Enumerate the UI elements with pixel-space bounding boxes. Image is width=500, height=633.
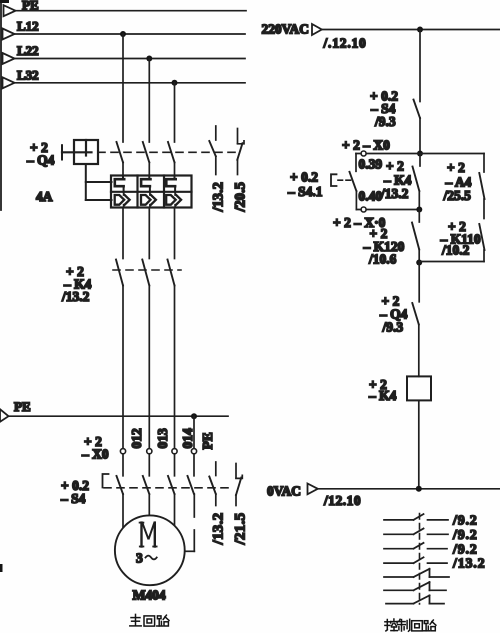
- node 1 junction: [417, 151, 423, 157]
- breaker Q4 trip linkage: [86, 164, 112, 200]
- coil K4: [368, 376, 431, 403]
- wire phase3 overload to K4: [174, 208, 176, 259]
- svg-text:/9.2: /9.2: [452, 528, 478, 543]
- switch S4 pole 2: [143, 454, 150, 514]
- label 回: [412, 621, 423, 631]
- wire 220VAC to S4: [419, 30, 421, 102]
- svg-text:/9.3: /9.3: [382, 320, 404, 335]
- thermal element phase2: [141, 176, 150, 192]
- net L22 rail: [3, 43, 246, 64]
- svg-text:/10.6: /10.6: [368, 252, 397, 267]
- svg-text:L22: L22: [17, 43, 39, 58]
- junction 0VAC: [416, 486, 422, 492]
- svg-text:– X0: – X0: [81, 447, 109, 462]
- net 0VAC rail: [267, 484, 500, 509]
- junction PE drop: [191, 413, 197, 419]
- auxiliary contact S4 /21.5 (NC): [233, 464, 249, 546]
- contact Q4 /9.3: [379, 263, 419, 377]
- switch S4 pole 1: [117, 454, 124, 527]
- net PE bottom rail: [0, 399, 228, 422]
- mirror contact 7 (NC): [386, 595, 444, 603]
- auxiliary contact S4 /13.2: [209, 462, 226, 546]
- junction on L32: [172, 80, 178, 86]
- contact mirror dashed link: [419, 514, 421, 605]
- wire coil to 0VAC: [418, 400, 420, 488]
- switch S4.1 branch: [287, 154, 356, 210]
- magnetic trip phase3: [166, 192, 181, 208]
- net PE top rail: [4, 0, 247, 16]
- label main-circuit (CJK): [130, 614, 436, 631]
- terminal X0:0.39 row: [342, 138, 420, 172]
- contactor K4 main pole 2: [142, 260, 149, 286]
- wire phase1 overload to K4: [122, 208, 124, 259]
- junction 220VAC: [417, 27, 423, 33]
- svg-text:PE: PE: [200, 432, 215, 449]
- wire pole3 to overload: [174, 162, 176, 175]
- svg-text:/10.2: /10.2: [441, 243, 470, 258]
- net 220VAC rail: [262, 22, 500, 51]
- wire phase2 drop: [148, 59, 150, 143]
- svg-text:L12: L12: [17, 19, 39, 34]
- switch S4 dashed link: [104, 487, 234, 489]
- switch S4 labels and actuator: [60, 474, 109, 506]
- contactor K4 main pole 1: [116, 260, 123, 286]
- svg-text:/13.2: /13.2: [211, 513, 227, 546]
- breaker Q4 mechanical dashed link: [98, 151, 236, 153]
- breaker Q4 pole 3: [168, 142, 175, 162]
- svg-text:PE: PE: [14, 399, 31, 414]
- svg-text:– S4: – S4: [60, 491, 86, 506]
- svg-text:0.39: 0.39: [359, 157, 383, 172]
- contactor K4 labels: [61, 264, 92, 304]
- label 路: [424, 620, 436, 631]
- terminal X0:014: [172, 449, 177, 454]
- wire phase2 K4 to X0: [148, 286, 150, 449]
- switch S4 pole 4 (PE): [185, 454, 195, 552]
- breaker Q4 actuator box: [26, 140, 98, 204]
- svg-text:0VAC: 0VAC: [267, 484, 301, 499]
- svg-text:/13.2: /13.2: [380, 186, 409, 201]
- svg-text:013: 013: [155, 428, 170, 449]
- label 制: [398, 619, 410, 631]
- contact K4 /13.2: [380, 154, 420, 210]
- thermal element phase1: [115, 176, 124, 192]
- label 路: [157, 615, 169, 626]
- svg-text:/9.2: /9.2: [452, 514, 478, 529]
- svg-text:/9.3: /9.3: [374, 114, 396, 129]
- wire phase2 overload to K4: [148, 208, 150, 259]
- terminal strip X0 labels: [81, 434, 109, 462]
- svg-text:/20.5: /20.5: [233, 182, 249, 212]
- terminal X0:PE: [191, 449, 196, 454]
- overload relay block outline: [111, 176, 192, 208]
- svg-text:3: 3: [136, 551, 143, 566]
- svg-text:/13.2: /13.2: [452, 557, 485, 572]
- terminal X0:012: [120, 449, 125, 454]
- wire phase3 drop: [174, 83, 176, 142]
- wire phase1 K4 to X0: [122, 286, 124, 449]
- svg-text:/12.10: /12.10: [323, 493, 361, 508]
- svg-text:/25.5: /25.5: [443, 188, 472, 203]
- label 控: [385, 619, 397, 631]
- motor M404: [115, 515, 185, 602]
- mirror contact 6 (NC): [384, 582, 446, 590]
- wire phase1 drop: [122, 34, 124, 142]
- mirror contact 1 /9.2: [384, 514, 478, 529]
- svg-text:220VAC: 220VAC: [262, 22, 309, 37]
- svg-text:/13.2: /13.2: [61, 289, 90, 304]
- svg-text:014: 014: [180, 428, 195, 449]
- wire pole1 to overload: [122, 162, 124, 175]
- svg-text:/13.2: /13.2: [211, 182, 227, 212]
- svg-text:/.12.10: /.12.10: [323, 36, 367, 51]
- net L32 rail: [3, 67, 246, 88]
- svg-text:– Q4: – Q4: [26, 153, 55, 168]
- thermal element phase3: [166, 176, 175, 192]
- svg-text:– K4: – K4: [368, 388, 397, 403]
- node 3 junction: [416, 260, 422, 266]
- svg-text:012: 012: [129, 428, 144, 449]
- label 主 (main): [130, 614, 141, 626]
- svg-text:+ 2 – X0: + 2 – X0: [342, 138, 390, 153]
- junction on L22: [146, 56, 152, 62]
- contactor K4 dashed link: [113, 269, 181, 271]
- contact A4 /25.5: [443, 154, 485, 219]
- svg-text:+ 2: + 2: [386, 159, 404, 174]
- terminal X0:0.40 row: [356, 189, 419, 213]
- svg-text:0.40: 0.40: [359, 189, 383, 204]
- svg-text:/9.2: /9.2: [452, 542, 478, 557]
- wire S4 to node 1: [419, 118, 421, 154]
- mirror contact 5 (NC): [384, 569, 449, 577]
- svg-text:M404: M404: [133, 588, 166, 603]
- auxiliary contact Q4 /13.2: [209, 126, 226, 213]
- svg-text:L32: L32: [17, 67, 39, 82]
- wire PE drop to X0: [193, 416, 195, 448]
- net L12 rail: [3, 19, 246, 40]
- wire branch top: [420, 153, 484, 155]
- label 回: [144, 616, 155, 626]
- auxiliary contact Q4 /20.5 (NC): [233, 129, 249, 213]
- breaker Q4 pole 1: [117, 142, 124, 162]
- wire branch bottom: [419, 261, 484, 263]
- svg-text:– S4.1: – S4.1: [287, 184, 323, 199]
- contactor K4 main pole 3: [168, 260, 175, 286]
- contact K110 /10.2: [440, 219, 485, 262]
- node 2 junction: [416, 207, 422, 213]
- magnetic trip phase2: [141, 192, 156, 208]
- magnetic trip phase1: [115, 192, 130, 208]
- svg-text:+ 0.2: + 0.2: [290, 170, 318, 185]
- mirror contact 2 /9.2: [384, 528, 478, 543]
- switch S4 pole 3: [168, 454, 175, 528]
- wire phase3 K4 to X0: [174, 286, 176, 449]
- breaker Q4 pole 2: [143, 142, 150, 162]
- contact K120 /10.6: [363, 210, 420, 267]
- switch S4.1 actuator: [331, 174, 352, 186]
- svg-text:/21.5: /21.5: [233, 513, 249, 546]
- contact S4 /9.3: [370, 89, 420, 130]
- mirror contact 3 /9.2: [384, 542, 478, 557]
- svg-text:4A: 4A: [36, 189, 53, 204]
- svg-text:+ 2: + 2: [447, 160, 465, 175]
- mirror contact 4 /13.2: [384, 557, 485, 572]
- terminal X0:013: [147, 449, 152, 454]
- wire pole2 to overload: [148, 162, 150, 175]
- junction on L12: [120, 31, 126, 37]
